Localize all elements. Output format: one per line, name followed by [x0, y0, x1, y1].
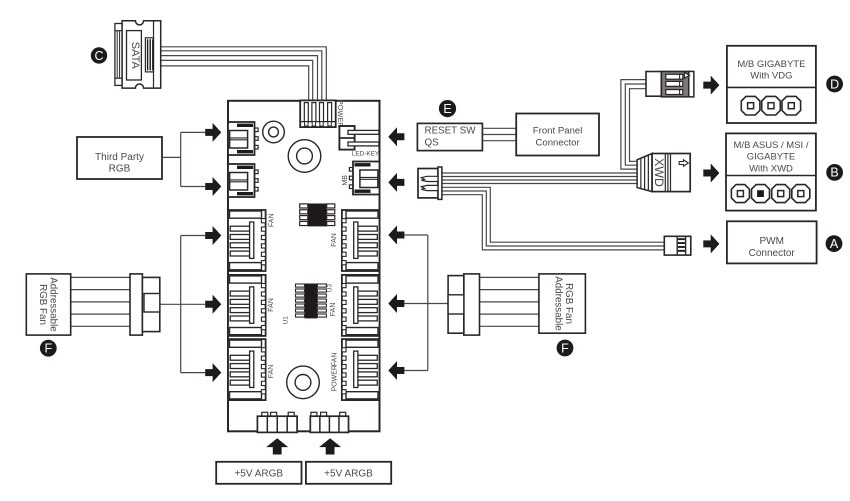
svg-text:D: D [830, 77, 839, 91]
svg-text:RGB Fan: RGB Fan [37, 284, 48, 325]
svg-text:FAN: FAN [331, 233, 338, 247]
svg-text:Front Panel: Front Panel [533, 126, 583, 137]
svg-text:FAN: FAN [330, 303, 337, 317]
svg-text:+5V ARGB: +5V ARGB [324, 469, 373, 480]
svg-text:B: B [830, 166, 838, 180]
svg-text:FAN: FAN [268, 365, 275, 379]
svg-text:QS: QS [425, 138, 440, 149]
svg-text:RGB: RGB [109, 164, 131, 175]
svg-text:Addressable: Addressable [552, 276, 563, 331]
svg-text:POWER: POWER [332, 365, 339, 391]
svg-text:XWD: XWD [652, 158, 666, 187]
svg-text:Connector: Connector [535, 138, 580, 149]
svg-text:F: F [561, 341, 569, 355]
svg-text:With VDG: With VDG [750, 70, 792, 81]
svg-text:SATA: SATA [129, 42, 141, 70]
svg-text:RESET SW: RESET SW [425, 125, 477, 136]
svg-text:U1: U1 [283, 316, 290, 325]
svg-text:RGB Fan: RGB Fan [563, 283, 574, 324]
svg-text:U3: U3 [327, 283, 334, 292]
svg-text:M/B ASUS / MSI /: M/B ASUS / MSI / [734, 140, 809, 151]
svg-text:GIGABYTE: GIGABYTE [747, 152, 796, 163]
svg-text:FAN: FAN [268, 213, 275, 227]
svg-text:FAN: FAN [332, 353, 339, 367]
svg-text:FAN: FAN [268, 298, 275, 312]
svg-text:A: A [830, 237, 839, 251]
svg-text:+5V ARGB: +5V ARGB [234, 469, 283, 480]
svg-text:Connector: Connector [749, 248, 796, 259]
svg-text:E: E [443, 102, 451, 116]
svg-text:POWER: POWER [336, 100, 345, 128]
svg-text:Addressable: Addressable [47, 277, 58, 332]
svg-text:With XWD: With XWD [749, 164, 793, 175]
svg-text:Third Party: Third Party [95, 152, 144, 163]
svg-text:PWM: PWM [759, 236, 783, 247]
svg-text:M/B GIGABYTE: M/B GIGABYTE [737, 59, 805, 70]
svg-text:F: F [44, 342, 52, 356]
svg-text:LED-KEY: LED-KEY [352, 150, 380, 157]
svg-text:C: C [94, 49, 103, 63]
svg-text:MB: MB [342, 175, 349, 186]
